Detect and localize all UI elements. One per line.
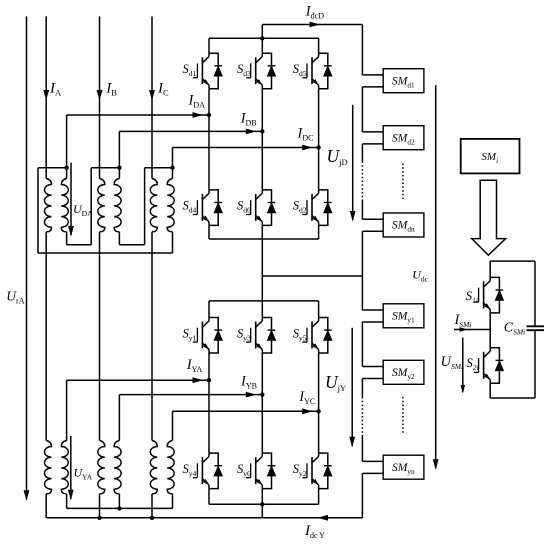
svg-text:SMi: SMi — [481, 151, 498, 165]
